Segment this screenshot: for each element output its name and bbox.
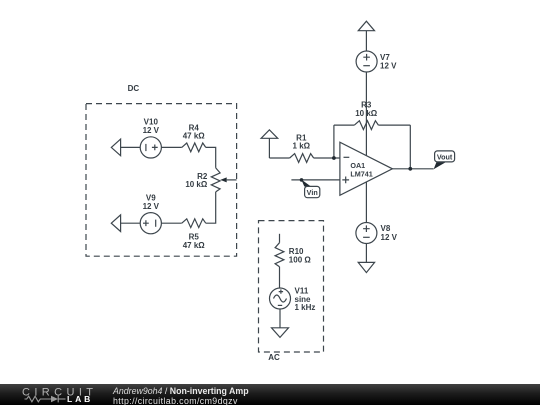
svg-text:1 kHz: 1 kHz [295, 303, 316, 312]
svg-text:47 kΩ: 47 kΩ [183, 241, 206, 250]
svg-text:12 V: 12 V [143, 202, 160, 211]
svg-text:LAB: LAB [67, 394, 93, 404]
svg-text:12 V: 12 V [143, 126, 160, 135]
svg-text:12 V: 12 V [380, 61, 397, 70]
svg-text:10 kΩ: 10 kΩ [355, 109, 378, 118]
svg-text:AC: AC [268, 353, 280, 362]
svg-text:DC: DC [128, 84, 140, 93]
svg-text:100 Ω: 100 Ω [289, 256, 312, 265]
svg-text:10 kΩ: 10 kΩ [185, 180, 208, 189]
svg-text:47 kΩ: 47 kΩ [183, 132, 206, 141]
svg-text:Vin: Vin [307, 188, 318, 197]
svg-text:LM741: LM741 [350, 169, 372, 178]
svg-text:V8: V8 [381, 224, 391, 233]
svg-text:1 kΩ: 1 kΩ [293, 142, 311, 151]
svg-text:12 V: 12 V [381, 233, 398, 242]
svg-text:Vout: Vout [437, 152, 453, 161]
